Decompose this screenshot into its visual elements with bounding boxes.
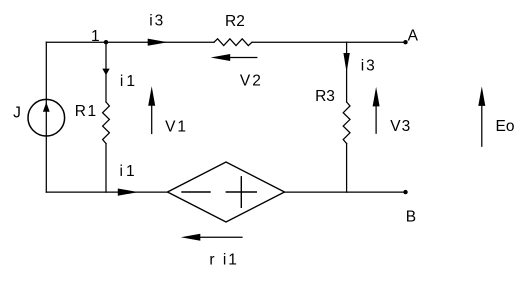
arrowhead V2 (left) xyxy=(211,54,231,61)
V2 arrow shaft xyxy=(227,57,257,59)
wire left vertical through source J xyxy=(45,42,47,192)
svg-text:V3: V3 xyxy=(390,118,411,135)
arrowhead V3 (up) xyxy=(373,87,380,107)
V3 arrow shaft xyxy=(375,102,377,133)
wire R1 branch upper xyxy=(105,42,107,102)
dependent source U1 diamond xyxy=(168,162,285,222)
arrowhead r i1 (left) xyxy=(181,234,201,241)
svg-text:i1: i1 xyxy=(120,73,138,90)
node B terminal dot xyxy=(403,190,407,194)
svg-text:V1: V1 xyxy=(165,118,188,135)
svg-text:R2: R2 xyxy=(225,13,245,30)
svg-text:i1: i1 xyxy=(120,163,138,180)
svg-text:i3: i3 xyxy=(361,58,377,75)
resistor R1 xyxy=(103,102,110,144)
arrowhead i3 current on R3 branch (down) xyxy=(343,53,349,73)
svg-text:A: A xyxy=(408,28,419,45)
svg-text:r i1: r i1 xyxy=(209,251,239,268)
svg-text:Eo: Eo xyxy=(496,118,515,135)
wire R3 branch upper xyxy=(346,42,348,102)
resistor R2 xyxy=(214,39,252,46)
V1 arrow shaft xyxy=(151,102,153,134)
arrowhead inside current source J (up) xyxy=(43,102,50,112)
wire bottom right: diamond right vertex to node B xyxy=(285,191,406,193)
arrowhead i1 current below node 1 (down) xyxy=(102,69,109,76)
svg-text:R3: R3 xyxy=(315,88,335,105)
wire R3 branch lower xyxy=(346,144,348,193)
wire bottom left: to diamond left vertex xyxy=(46,191,167,193)
arrowhead V1 (up) xyxy=(148,86,155,106)
svg-text:B: B xyxy=(406,209,416,226)
svg-text:i3: i3 xyxy=(149,12,165,29)
resistor R3 xyxy=(343,102,350,144)
r i1 arrow shaft xyxy=(197,236,242,238)
svg-text:J: J xyxy=(13,104,21,121)
plus sign inside diamond xyxy=(226,191,256,193)
arrowhead Eo (up) xyxy=(478,86,485,106)
wire R1 branch lower xyxy=(105,144,107,193)
node 1 junction dot xyxy=(104,40,108,44)
svg-text:V2: V2 xyxy=(240,73,263,90)
minus sign inside diamond xyxy=(182,191,210,193)
Eo arrow shaft xyxy=(481,102,483,146)
arrowhead i3 current on top wire (right) xyxy=(148,39,168,46)
current source J circle xyxy=(28,99,65,136)
wire top: R2 right to node A xyxy=(252,41,406,43)
svg-text:1: 1 xyxy=(91,28,100,45)
arrowhead i1 current on bottom wire (right) xyxy=(118,189,139,196)
node A terminal dot xyxy=(403,40,407,44)
svg-text:R1: R1 xyxy=(75,103,98,120)
wire top: node1 corner to R2 left xyxy=(46,41,214,43)
